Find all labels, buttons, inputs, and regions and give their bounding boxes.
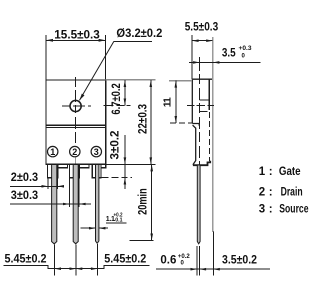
hole horizontal centerline bbox=[62, 105, 91, 107]
arrow 5.45b right bbox=[91, 267, 97, 270]
svg-text:2: 2 bbox=[259, 186, 265, 198]
svg-text:5.45±0.2: 5.45±0.2 bbox=[104, 252, 146, 266]
svg-text:20min: 20min bbox=[138, 188, 150, 215]
svg-text:3.5±0.2: 3.5±0.2 bbox=[222, 254, 257, 266]
arrow 3 pitch left bbox=[63, 203, 69, 206]
arrow 15.5 left bbox=[46, 39, 53, 42]
dim 15.5 line bbox=[46, 39, 106, 41]
pin2 center extension bbox=[75, 245, 77, 276]
dim 2 extension right bbox=[57, 179, 59, 190]
arrow 5.5 right bbox=[206, 39, 212, 42]
arrow 11 down bbox=[175, 116, 178, 123]
side hole hidden bottom line bbox=[199, 111, 207, 113]
hole centerline right extension bbox=[104, 105, 131, 107]
pin1 center extension bbox=[54, 245, 56, 276]
svg-text:22±0.3: 22±0.3 bbox=[138, 104, 150, 134]
arrow 3 up bbox=[124, 178, 127, 185]
arrow 0.6 right bbox=[200, 268, 206, 271]
dim 11 line bbox=[175, 81, 177, 123]
svg-text:3: 3 bbox=[94, 147, 99, 157]
dim 1.1 line left part bbox=[81, 227, 96, 229]
arrow 3.5 top left bbox=[193, 61, 199, 64]
step line upper bbox=[46, 124, 106, 126]
bottom dim polyline left bbox=[4, 265, 150, 268]
pin3 center extension bbox=[96, 244, 98, 276]
side back gray line bbox=[212, 37, 214, 232]
svg-text:2: 2 bbox=[72, 147, 77, 157]
back face bottom extension bbox=[212, 231, 214, 276]
dim 2 extension left bbox=[47, 179, 49, 190]
pin number circle 1 bbox=[48, 146, 58, 156]
mounting hole bbox=[70, 100, 81, 111]
svg-text:1: 1 bbox=[50, 147, 55, 157]
svg-text:Gate: Gate bbox=[279, 165, 301, 178]
svg-text:1: 1 bbox=[259, 166, 266, 178]
bottom edge tab 2 bbox=[80, 164, 89, 167]
dim 1.1 underline bbox=[106, 222, 127, 224]
arrow 1.1 left bbox=[89, 227, 95, 230]
arrow 5.5 left bbox=[192, 39, 198, 42]
svg-text::: : bbox=[269, 166, 273, 178]
dim 15.5 extension right bbox=[105, 35, 107, 80]
dim 3 pitch line bbox=[10, 203, 91, 205]
svg-text:5.45±0.2: 5.45±0.2 bbox=[5, 252, 47, 266]
lead tip extension line bbox=[130, 240, 154, 242]
arrow 11 up bbox=[175, 81, 178, 88]
pin 2 lead bbox=[73, 165, 78, 244]
arrow 22 up bbox=[150, 80, 153, 87]
dia leader shelf bbox=[114, 41, 152, 43]
side view bottom edge bbox=[193, 161, 210, 165]
svg-text::: : bbox=[269, 204, 273, 216]
arrow 3 pitch right bbox=[79, 203, 85, 206]
bottom edge tab 3 bbox=[101, 164, 106, 167]
arrowheads bbox=[42, 39, 220, 271]
svg-text::: : bbox=[269, 186, 273, 198]
svg-text:5.5±0.3: 5.5±0.3 bbox=[185, 21, 219, 33]
svg-text:6.7±0.2: 6.7±0.2 bbox=[111, 83, 123, 114]
package body front view bbox=[46, 80, 106, 164]
arrow 15.5 right bbox=[99, 39, 106, 42]
arrow 2 right bbox=[58, 185, 64, 188]
bottom edge right extension bbox=[106, 163, 156, 165]
pin number circle 2 bbox=[70, 146, 80, 156]
dim 3 extension left bbox=[68, 179, 70, 208]
dim 20min line bbox=[151, 164, 153, 240]
pin number circle 3 bbox=[91, 146, 101, 156]
side view outline bbox=[192, 79, 212, 165]
side bottom dim line bbox=[156, 268, 270, 270]
top edge right extension bbox=[106, 79, 156, 81]
dim 2 line bbox=[10, 185, 64, 187]
bottom edge tab 1 bbox=[58, 164, 68, 167]
arrow 5.45a left bbox=[55, 267, 61, 270]
svg-text:3±0.3: 3±0.3 bbox=[11, 190, 38, 202]
arrow 5.45a right bbox=[70, 267, 76, 270]
svg-text:0: 0 bbox=[242, 54, 246, 60]
side lead centerline bbox=[199, 57, 201, 173]
svg-text:3.5: 3.5 bbox=[222, 47, 236, 59]
svg-text:Source: Source bbox=[279, 204, 309, 216]
arrow 2 left bbox=[42, 185, 48, 188]
body bottom edge emphasis bbox=[46, 163, 106, 165]
arrow 1.1 right bbox=[99, 227, 105, 230]
svg-text:0.6: 0.6 bbox=[160, 254, 176, 266]
arrow 3.5 bottom bbox=[213, 268, 219, 271]
dim 3 vertical line bbox=[124, 135, 126, 189]
svg-text:Drain: Drain bbox=[281, 186, 303, 198]
side lead extension left bbox=[196, 246, 198, 276]
side hole hidden top line bbox=[199, 99, 209, 101]
dia leader line bbox=[80, 42, 114, 101]
arrow 3 down bbox=[124, 157, 127, 164]
pin 3 lead bbox=[96, 165, 99, 243]
arrow dia leader bbox=[80, 94, 85, 101]
dim 3 extension right bbox=[78, 179, 80, 208]
arrow 6.7 down bbox=[124, 99, 127, 106]
arrow 5.45b left bbox=[76, 267, 82, 270]
arrow 3.5 top right bbox=[213, 61, 219, 64]
arrow 20min down bbox=[150, 234, 153, 241]
side lead bbox=[197, 166, 200, 244]
step line lower bbox=[46, 126, 106, 128]
dim 1.1 line right part bbox=[99, 227, 108, 229]
hole vertical centerline bbox=[75, 77, 77, 143]
side step dashed extension bbox=[170, 122, 192, 124]
shoulder bottom dashed extension bbox=[102, 177, 133, 179]
pin 1 shoulder bbox=[48, 164, 58, 177]
arrow 6.7 up bbox=[124, 80, 127, 87]
arrow 0.6 left bbox=[191, 268, 197, 271]
dim 22 line bbox=[150, 80, 152, 164]
svg-text:11: 11 bbox=[162, 97, 174, 107]
svg-text:+0.2: +0.2 bbox=[178, 254, 191, 260]
side view inner right line solid bbox=[208, 79, 210, 110]
pin 2 shoulder bbox=[69, 164, 79, 177]
dim 15.5 extension left bbox=[45, 35, 47, 80]
dim 6.7 line bbox=[124, 80, 126, 106]
centerline below circle 2 bbox=[75, 158, 77, 164]
dim 5.5 extension left bbox=[191, 35, 193, 79]
pin 1 lead bbox=[52, 165, 57, 244]
side top-left extension bbox=[169, 80, 192, 82]
pin 3 shoulder bbox=[92, 164, 101, 177]
svg-text:-0.1: -0.1 bbox=[114, 218, 123, 224]
svg-text:Ø3.2±0.2: Ø3.2±0.2 bbox=[116, 26, 162, 40]
svg-text:+0.3: +0.3 bbox=[239, 46, 253, 52]
dim 3.5 top line bbox=[189, 61, 261, 63]
side lead extension right bbox=[199, 246, 201, 276]
side view inner right line dashed bbox=[208, 112, 210, 161]
arrow 22 down bbox=[150, 157, 153, 164]
svg-text:15.5±0.3: 15.5±0.3 bbox=[54, 28, 100, 42]
svg-text:2±0.3: 2±0.3 bbox=[11, 172, 38, 184]
svg-text:3: 3 bbox=[259, 204, 265, 216]
svg-text:3±0.2: 3±0.2 bbox=[110, 131, 122, 160]
svg-text:0: 0 bbox=[181, 260, 185, 266]
arrow 20min up bbox=[150, 164, 153, 171]
dim 5.5 line bbox=[192, 40, 212, 42]
side hole centerline dashes bbox=[187, 105, 214, 107]
